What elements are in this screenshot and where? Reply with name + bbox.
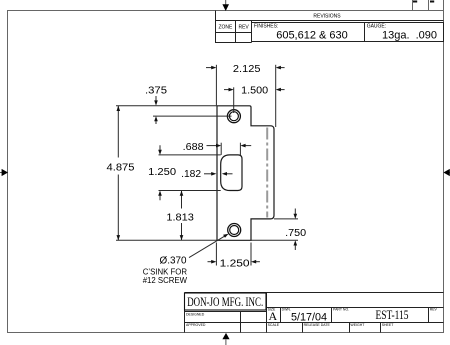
opening right vertical extension: [239, 143, 241, 156]
weight cell label: [350, 323, 365, 327]
svg-text:REVISIONS: REVISIONS: [313, 14, 341, 20]
svg-text:PART NO.: PART NO.: [333, 308, 349, 312]
svg-text:WEIGHT: WEIGHT: [350, 323, 365, 327]
extension line plate bottom right: [251, 239, 298, 241]
revisions table frame: [215, 11, 444, 43]
dim 1.500: [224, 89, 285, 91]
svg-text:1.250: 1.250: [220, 258, 251, 269]
svg-text:1.250: 1.250: [148, 167, 176, 178]
dim .182: [204, 173, 233, 175]
extension line plate top left: [116, 105, 217, 107]
svg-text:.688: .688: [183, 142, 204, 153]
svg-text:13ga. .090: 13ga. .090: [382, 30, 437, 42]
bottom width left extension: [215, 243, 217, 266]
bottom screw hole: [228, 224, 241, 237]
svg-text:ZONE: ZONE: [218, 25, 233, 31]
dim .750: [294, 209, 296, 215]
svg-text:1.813: 1.813: [166, 213, 194, 224]
extension line plate left vertical top: [215, 65, 217, 106]
svg-text:605,612 & 630: 605,612 & 630: [276, 30, 348, 42]
svg-text:REV: REV: [238, 25, 249, 31]
centering mark right: [443, 169, 450, 176]
svg-text:REV: REV: [430, 308, 438, 312]
svg-text:EST-115: EST-115: [376, 308, 409, 322]
dim 1.813: [181, 191, 183, 241]
release date cell label: [304, 323, 331, 327]
scale cell label: [268, 323, 280, 327]
dim 1.250 opening height: [159, 145, 161, 150]
opening bottom extension line: [159, 190, 221, 192]
finishes box: [252, 23, 365, 42]
opening top extension line: [159, 154, 221, 156]
sheet cell label: [382, 323, 395, 327]
svg-text:RELEASE DATE: RELEASE DATE: [304, 323, 331, 327]
part no cell: [333, 308, 349, 312]
svg-text:4.875: 4.875: [107, 163, 135, 174]
svg-text:#12 SCREW: #12 SCREW: [143, 276, 188, 285]
svg-text:FINISHES:: FINISHES:: [254, 24, 278, 30]
dim 1.250 bottom width: [208, 261, 260, 263]
date cell: [282, 308, 291, 312]
opening left vertical extension: [220, 143, 222, 155]
svg-text:.375: .375: [145, 86, 167, 97]
company name box: [185, 293, 267, 310]
extension line lip bottom right: [274, 218, 298, 220]
centering mark top: [222, 0, 229, 11]
svg-text:Ø.370: Ø.370: [160, 255, 187, 266]
top screw hole: [227, 110, 240, 123]
bend centerline: [266, 128, 268, 218]
title block frame: [185, 293, 444, 333]
dim 2.125: [206, 67, 285, 69]
lip right vertical extension: [275, 65, 277, 127]
svg-text:DON-JO MFG. INC.: DON-JO MFG. INC.: [187, 294, 263, 309]
svg-text:A: A: [268, 309, 277, 323]
svg-text:1.500: 1.500: [241, 86, 268, 97]
latch opening: [221, 155, 242, 191]
svg-text:APPROVED: APPROVED: [186, 323, 206, 327]
size cell: [268, 308, 276, 312]
centering mark left: [0, 169, 8, 176]
strike plate outline: [217, 106, 274, 241]
dim 4.875: [117, 106, 119, 241]
gauge box: [365, 23, 444, 42]
bottom width right extension: [250, 243, 252, 266]
centering mark bottom: [222, 333, 229, 345]
extension line plate bottom left: [116, 239, 217, 241]
svg-text:DWN.: DWN.: [282, 308, 291, 312]
rev cell label: [430, 308, 438, 312]
hole callout leader: [189, 235, 227, 258]
svg-text:DESIGNED: DESIGNED: [186, 313, 205, 317]
designed cell label: [186, 313, 205, 317]
svg-text:SCALE: SCALE: [268, 323, 280, 327]
approved cell label: [186, 323, 206, 327]
svg-text:2.125: 2.125: [233, 64, 261, 75]
svg-text:.750: .750: [285, 228, 306, 239]
hole center vertical extension: [233, 87, 235, 113]
svg-text:.182: .182: [181, 169, 201, 180]
top-right partial table above border: [413, 0, 444, 11]
dim .375: [155, 96, 157, 101]
top hole centerline: [153, 115, 232, 117]
dim .688: [207, 145, 252, 147]
svg-text:SHEET: SHEET: [382, 323, 395, 327]
svg-text:5/17/04: 5/17/04: [291, 311, 327, 323]
